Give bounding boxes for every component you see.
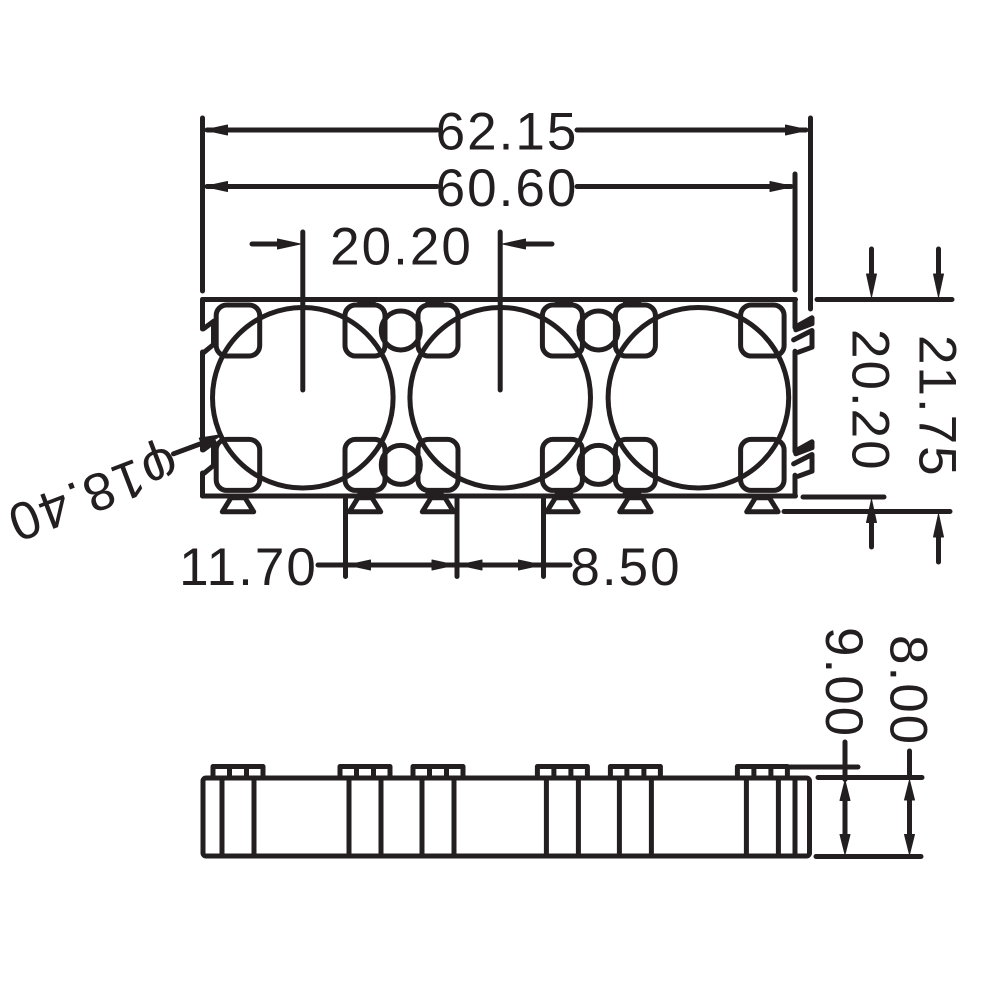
top view: cell circle 2 (phi 18.40) [410, 307, 591, 488]
dimension 8.00: dimension line with arrows [907, 751, 912, 777]
top view: body left wall segment 3 [200, 473, 205, 496]
top view: bottom edge step details [360, 492, 640, 497]
dimension 20.20 height: bottom extension line [803, 495, 884, 500]
side view: tab 6 ridge ticks [754, 767, 771, 778]
top view: mounting foot [620, 498, 651, 512]
side view: rib walls under tab 2 [349, 778, 381, 856]
svg-text:20.20: 20.20 [841, 329, 900, 472]
dimension phi 18.40: leader line with arrow [174, 444, 201, 454]
top view: right dovetail tab lower [794, 442, 812, 477]
top view: mounting foot [222, 498, 253, 512]
side view: top tab 4 [537, 767, 587, 779]
dimension 62.15: left extension line [200, 118, 205, 291]
dimension 8.50: extension line c [541, 499, 546, 577]
side view: top tab 3 [413, 767, 463, 779]
side view: bar outline [203, 778, 810, 856]
side view: top tab 1 [213, 767, 263, 779]
svg-text:9.00: 9.00 [814, 627, 873, 738]
dimension 62.15: dimension line with arrows [207, 128, 806, 133]
dimension 11.70: extension line a [343, 499, 348, 577]
top view: left dovetail notch lower [204, 442, 215, 473]
dimension 9.00: dimension line with arrows [843, 742, 848, 780]
top view: right dovetail tab upper [794, 318, 812, 353]
side view: top tab 6 [737, 767, 787, 779]
svg-text:21.75: 21.75 [908, 335, 967, 478]
side view: tab 5 ridge ticks [627, 767, 644, 778]
top view: contact slot square row 2 col 6 [741, 439, 785, 490]
top view: body left wall segment 2 [200, 352, 205, 450]
top view: contact slot square row 2 col 3 [418, 439, 458, 490]
top view: top edge step details [360, 299, 640, 304]
top view: mounting foot [349, 498, 380, 512]
side view: top tab 5 [610, 767, 660, 779]
side view: tab 4 ridge ticks [554, 767, 571, 778]
svg-text:8.00: 8.00 [879, 635, 938, 746]
svg-text:φ18.40: φ18.40 [0, 434, 187, 553]
dimension 21.75: top arrow [936, 249, 941, 275]
dimension 20.20 pitch: right extension line into cell 2 [498, 232, 503, 390]
side view: rib walls under tab 4 [546, 778, 578, 856]
side view: top tab 2 [340, 767, 390, 779]
top view: contact slot square row 2 col 2 [345, 439, 385, 490]
svg-text:8.50: 8.50 [570, 538, 681, 597]
top view: body outline top edge [203, 297, 796, 302]
top view: mounting foot [422, 498, 453, 512]
dimension 8.00: top extension line [818, 775, 922, 780]
svg-text:62.15: 62.15 [436, 103, 579, 162]
dimension 20.20 pitch: left extension line into cell 1 [300, 232, 305, 390]
top view: contact slot square row 1 col 3 [418, 305, 458, 356]
svg-text:60.60: 60.60 [436, 159, 579, 218]
top view: contact slot square row 1 col 6 [741, 305, 785, 356]
dimension 20.20 / 21.75: top extension line [817, 297, 952, 302]
top view: body right wall segment 3 [793, 475, 798, 496]
dimension 9.00: top extension line [790, 765, 858, 770]
top view: small pillar circle [579, 445, 618, 484]
svg-text:11.70: 11.70 [179, 538, 318, 597]
dimension 20.20 pitch: right arrow [521, 242, 552, 247]
side view: tab 3 ridge ticks [430, 767, 447, 778]
top view: small pillar circle [381, 311, 420, 350]
dimension 20.20 height: top arrow [869, 249, 874, 275]
dimension 60.60: dimension line with arrows [207, 184, 791, 189]
side view: tab 2 ridge ticks [357, 767, 374, 778]
side view: tab 1 ridge ticks [230, 767, 247, 778]
top view: contact slot square row 2 col 5 [615, 439, 655, 490]
dimension 8.50: dimension line with arrows [457, 563, 570, 568]
side view: rib walls under tab 6 [746, 778, 778, 856]
top view: left dovetail notch upper [204, 321, 215, 352]
dimension 11.70 / 8.50: shared extension line b [455, 499, 460, 577]
dimension 8.00 / 9.00: bottom extension line [816, 854, 921, 859]
top view: body left wall segment 1 [200, 300, 205, 330]
top view: cell circle 3 (phi 18.40) [608, 307, 789, 488]
side view: rib walls under tab 1 [222, 778, 254, 856]
top view: contact slot square row 1 col 2 [345, 305, 385, 356]
svg-text:20.20: 20.20 [330, 217, 473, 276]
side view: rib walls under tab 5 [619, 778, 651, 856]
top view: small pillar circle [381, 445, 420, 484]
dimension 62.15: right extension line [808, 118, 813, 309]
dimension 60.60: right extension line [793, 174, 798, 290]
dimension 20.20 height: bottom arrow [869, 522, 874, 547]
top view: body right wall segment 1 [793, 300, 798, 328]
top view: small pillar circle [579, 311, 618, 350]
top view: contact slot square row 2 col 4 [542, 439, 582, 490]
top view: body right wall segment 2 [793, 351, 798, 451]
dimension 20.20 pitch: left arrow [252, 242, 282, 247]
top view: contact slot square row 1 col 5 [615, 305, 655, 356]
dimension 21.75: bottom arrow [936, 537, 941, 562]
dimension 11.70: dimension line with arrows [318, 563, 457, 568]
top view: contact slot square row 2 col 1 [216, 439, 260, 490]
side view: right end inner wall [793, 778, 798, 856]
side view: rib walls under tab 3 [422, 778, 454, 856]
top view: contact slot square row 1 col 1 [216, 305, 260, 356]
top view: contact slot square row 1 col 4 [542, 305, 582, 356]
top view: body outline bottom edge [203, 494, 796, 499]
top view: mounting foot [747, 498, 778, 512]
dimension 21.75: bottom extension line at feet [784, 509, 950, 514]
top view: mounting foot [547, 498, 578, 512]
top view: cell circle 1 (phi 18.40) [212, 307, 393, 488]
